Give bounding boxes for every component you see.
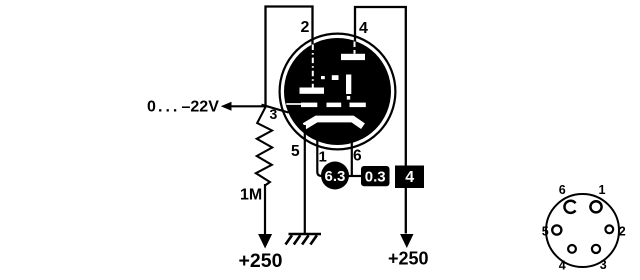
resistor 1M [256, 106, 272, 186]
svg-text:1: 1 [319, 149, 327, 166]
svg-text:5: 5 [542, 224, 549, 238]
svg-text:6: 6 [559, 183, 566, 197]
anode plate (pin 4) [341, 54, 365, 60]
dot under ray-control electrode [347, 96, 350, 100]
socket pin 1 hole [590, 201, 601, 212]
socket pin 5 hole [552, 225, 561, 234]
svg-text:3: 3 [600, 258, 607, 272]
ray-control electrode bar [346, 75, 351, 95]
svg-text:4: 4 [559, 258, 566, 272]
socket pin 3 hole [592, 245, 600, 253]
wire: grid node to pin 3 (diagonal) [262, 105, 289, 113]
svg-text:4: 4 [405, 169, 414, 186]
socket outline [546, 194, 619, 267]
svg-text:+250: +250 [388, 249, 429, 269]
svg-text:6: 6 [353, 148, 362, 165]
socket pin 6 hole (keyed, C shape) [564, 201, 575, 213]
wire: pin 4 loop to +250 rail [355, 7, 406, 234]
arrowhead +250 (left) [258, 234, 272, 249]
arrowhead +250 (right) [400, 234, 413, 248]
arrowhead to -22V [221, 102, 232, 111]
svg-text:2: 2 [301, 19, 310, 36]
svg-text:6.3: 6.3 [325, 168, 346, 185]
dash-dot link pin2 line to ray-control electrode [321, 75, 339, 80]
svg-text:4: 4 [359, 20, 368, 37]
wire: pin 2 loop to grid node [266, 7, 313, 107]
svg-text:0.3: 0.3 [365, 169, 386, 186]
anode current box 4 [395, 166, 424, 189]
tube V1 envelope [280, 34, 396, 150]
svg-text:1M: 1M [240, 187, 262, 204]
wire: resistor to +250 arrow [264, 184, 266, 235]
svg-text:2: 2 [619, 224, 626, 238]
wire: arrow to grid node [230, 105, 267, 107]
heater current box 0.3 [361, 166, 390, 186]
tube V1 internal cage (black disc) [284, 38, 391, 145]
svg-text:...: ... [158, 98, 180, 115]
svg-text:1: 1 [599, 183, 606, 197]
wire: pin 6 down to heater node [351, 140, 353, 177]
dash-dot lead from pin 4 to anode plate [354, 42, 356, 54]
ground [286, 234, 322, 245]
wire: heater node to 0.3 box [348, 175, 362, 177]
dash-dot lead from pin 2 to anode plate [312, 45, 314, 88]
label 0...-22V [147, 98, 219, 115]
wire: pin 5 (cathode) to ground [304, 125, 306, 234]
svg-text:+250: +250 [239, 250, 283, 272]
svg-text:5: 5 [291, 143, 300, 160]
cathode [305, 119, 364, 126]
anode plate (pin 2) [300, 88, 325, 94]
socket pin 2 hole [605, 225, 613, 233]
socket pin 4 hole [568, 245, 576, 253]
wire: pin 1 to heater indicator [317, 140, 322, 176]
grid (dashed line, pin 3) [286, 103, 366, 108]
svg-text:0: 0 [147, 98, 156, 115]
svg-text:–22V: –22V [182, 98, 220, 115]
heater voltage indicator 6.3 [321, 162, 349, 190]
